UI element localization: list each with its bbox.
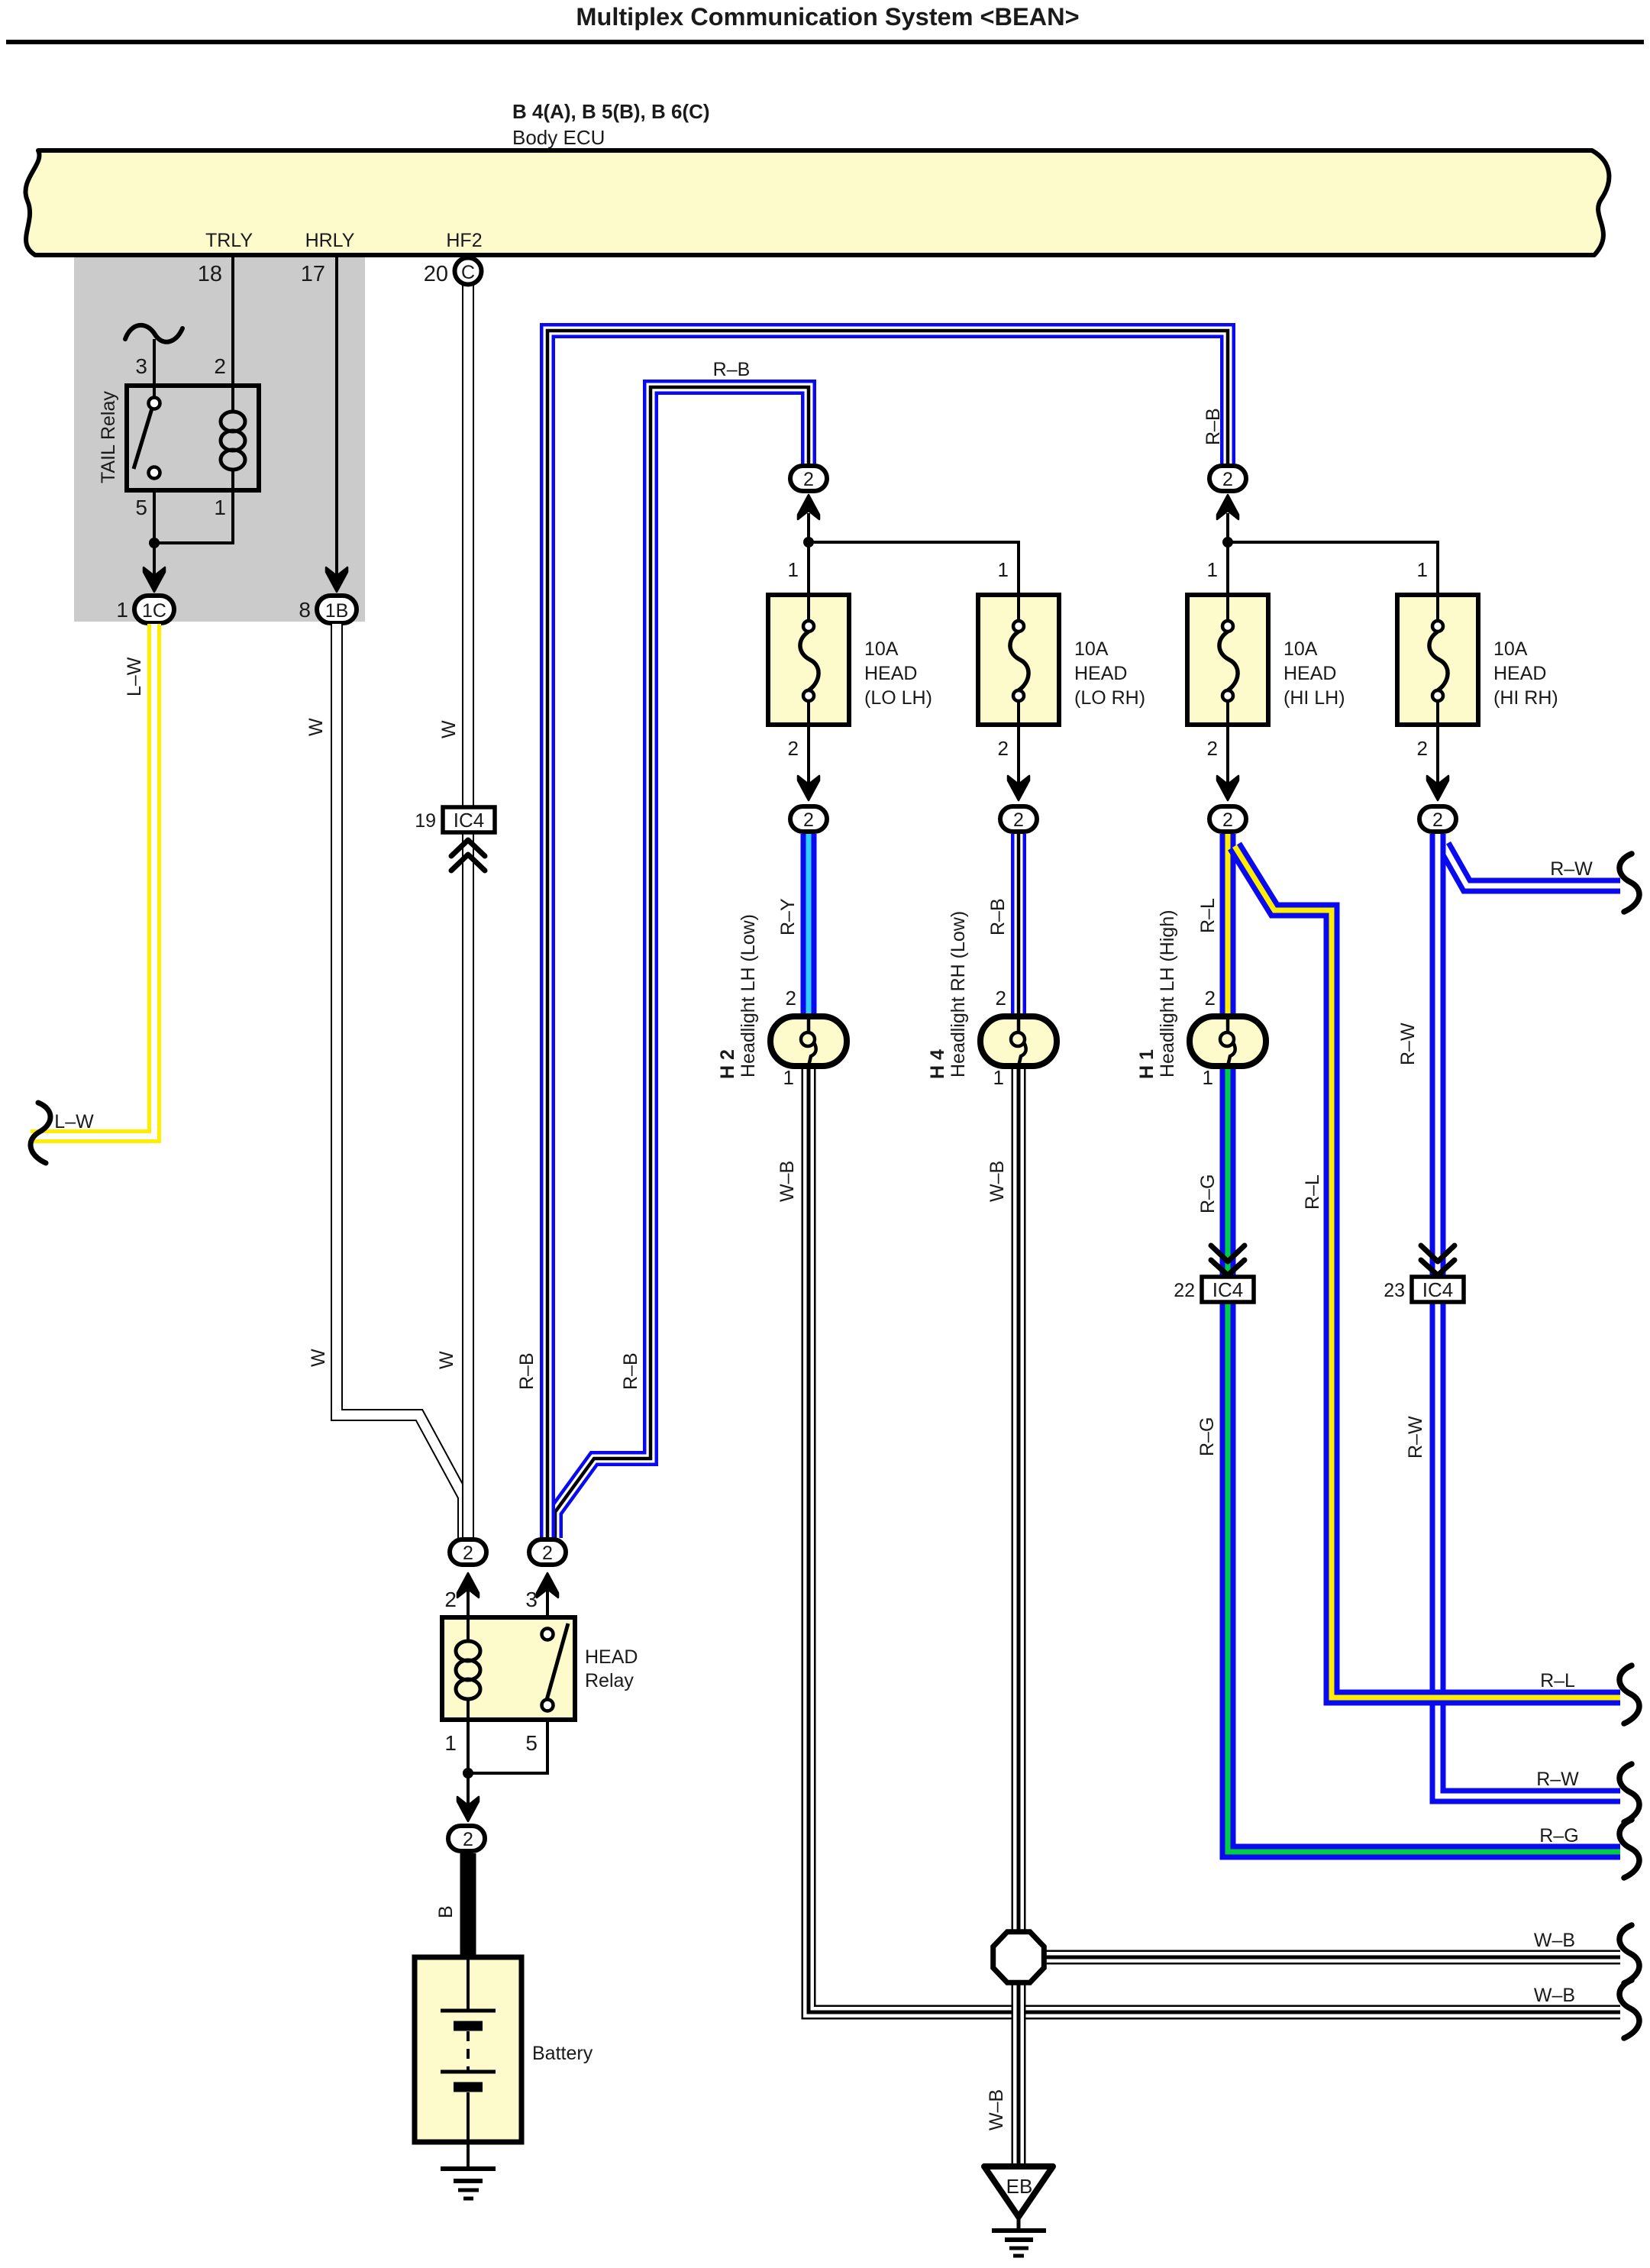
- svg-text:HEAD: HEAD: [1074, 663, 1127, 684]
- relay TAIL Relay: [98, 386, 259, 490]
- junction dot: [463, 1768, 473, 1779]
- headlight H4 (RH Low): [927, 911, 1057, 1089]
- svg-text:8: 8: [299, 598, 311, 622]
- wire HEAD relay pin5 to junction: [468, 1720, 547, 1773]
- wire W-B octagon to right: [1043, 1950, 1620, 1965]
- svg-text:3: 3: [135, 354, 147, 378]
- svg-text:HEAD: HEAD: [864, 663, 917, 684]
- svg-text:W–B: W–B: [1534, 1985, 1575, 2006]
- wire and arrow fuse LO RH pin2 to connector 2: [1000, 725, 1037, 832]
- grey harness region: [74, 257, 365, 622]
- svg-text:19: 19: [415, 810, 436, 832]
- svg-text:(HI RH): (HI RH): [1493, 687, 1558, 709]
- connector 2 under fuse HI RH: [1419, 806, 1456, 832]
- wire HRLY pin17 to connector 1B: [335, 255, 338, 577]
- wire R-Y fuse LO LH to headlight H2: [801, 834, 817, 1016]
- svg-text:HEAD: HEAD: [585, 1646, 638, 1668]
- svg-text:10A: 10A: [1284, 638, 1318, 660]
- svg-text:HEAD: HEAD: [1493, 663, 1546, 684]
- svg-text:R–G: R–G: [1197, 1174, 1219, 1213]
- wire R-B fuse LO RH to headlight H4: [1011, 834, 1026, 1016]
- svg-text:3: 3: [525, 1588, 538, 1611]
- wire TAIL relay pin1 to junction: [154, 490, 233, 543]
- fuse feed wires col3: [1226, 513, 1229, 595]
- svg-text:2: 2: [1013, 809, 1024, 831]
- Body ECU bar: [25, 150, 1609, 255]
- svg-text:20: 20: [424, 262, 448, 286]
- wire R-W branch from fuse HI RH connector to right: [1444, 845, 1620, 886]
- chevron down into IC4 23: [1421, 1245, 1455, 1262]
- svg-text:2: 2: [463, 1543, 473, 1564]
- wire W-B octagon to EB ground: [1012, 1982, 1026, 2166]
- svg-text:1: 1: [1207, 558, 1218, 581]
- connector circle C: [455, 258, 482, 285]
- svg-text:R–G: R–G: [1539, 1825, 1578, 1846]
- svg-text:1B: 1B: [325, 600, 349, 622]
- svg-text:10A: 10A: [1074, 638, 1109, 660]
- svg-text:(LO RH): (LO RH): [1074, 687, 1145, 709]
- svg-text:R–W: R–W: [1550, 858, 1593, 880]
- svg-text:2: 2: [214, 354, 226, 378]
- wire HEAD relay pin1 down: [467, 1720, 470, 1807]
- fuse 10A HEAD (LO LH): [768, 558, 932, 760]
- svg-text:Body ECU: Body ECU: [512, 126, 605, 149]
- svg-text:TAIL Relay: TAIL Relay: [98, 391, 119, 483]
- svg-text:2: 2: [1205, 987, 1216, 1010]
- svg-text:IC4: IC4: [1212, 1278, 1243, 1301]
- wire R-B main (HEAD relay to fuse HI LH): [547, 331, 1228, 1539]
- wire and arrow fuse HI RH pin2 down: [1427, 725, 1448, 800]
- svg-text:2: 2: [444, 1588, 457, 1611]
- coil: [231, 386, 234, 412]
- svg-text:2: 2: [998, 737, 1009, 760]
- wire W from connector C down to HEAD relay connector: [462, 283, 474, 1538]
- wire R-W main from fuse HI RH down: [1438, 834, 1620, 1796]
- arrow into battery connector: [457, 1797, 479, 1821]
- svg-text:C: C: [461, 262, 475, 283]
- headlight H2 (LH Low): [717, 914, 847, 1089]
- svg-text:W: W: [305, 718, 327, 736]
- fuse 10A HEAD (HI RH): [1397, 558, 1558, 760]
- svg-text:H 2: H 2: [717, 1049, 738, 1079]
- wire R-L branch from fuse HI LH connector to right: [1235, 846, 1620, 1698]
- svg-text:(LO LH): (LO LH): [864, 687, 932, 709]
- svg-text:2: 2: [1417, 737, 1428, 760]
- svg-text:W–B: W–B: [1534, 1930, 1575, 1951]
- wire W from 1B down to merge: [337, 624, 463, 1538]
- svg-text:5: 5: [135, 496, 147, 519]
- connector 2 under fuse HI LH: [1209, 806, 1246, 832]
- svg-text:EB: EB: [1006, 2175, 1033, 2198]
- connector 2 above HEAD relay switch: [529, 1539, 566, 1598]
- svg-text:H 1: H 1: [1136, 1049, 1158, 1079]
- svg-text:Headlight LH (Low): Headlight LH (Low): [738, 914, 759, 1077]
- wire and arrow fuse LO LH pin2 to connector 2: [790, 725, 827, 832]
- svg-text:2: 2: [542, 1543, 553, 1564]
- connector IC4 pin19: [443, 807, 495, 832]
- connector IC4 pin 22: [1202, 1277, 1254, 1302]
- svg-text:2: 2: [1432, 809, 1443, 831]
- svg-text:17: 17: [301, 262, 325, 286]
- svg-text:1: 1: [444, 1731, 457, 1755]
- svg-text:HF2: HF2: [446, 230, 482, 251]
- svg-text:R–W: R–W: [1405, 1416, 1426, 1459]
- svg-text:R–B: R–B: [1203, 408, 1224, 445]
- switch contacts: [149, 398, 160, 409]
- wire W-B headlight H4 to ground octagon: [1012, 1069, 1026, 1933]
- headlight H1 (LH High): [1136, 909, 1266, 1089]
- wire to HEAD relay pin 3: [546, 1588, 549, 1617]
- torn end squiggle L-W: [31, 1103, 50, 1163]
- right torn end squiggle W-B 2: [1619, 1980, 1639, 2038]
- svg-text:2: 2: [996, 987, 1006, 1010]
- svg-text:R–B: R–B: [620, 1352, 641, 1390]
- ground junction octagon: [993, 1932, 1045, 1983]
- svg-text:L–W: L–W: [124, 657, 145, 696]
- svg-text:10A: 10A: [1493, 638, 1528, 660]
- svg-text:W–B: W–B: [986, 2089, 1007, 2131]
- svg-text:22: 22: [1174, 1280, 1195, 1301]
- svg-text:R–G: R–G: [1196, 1417, 1218, 1456]
- svg-text:H 4: H 4: [927, 1049, 948, 1079]
- right torn end squiggle R-W: [1619, 1764, 1639, 1822]
- wire to HEAD relay pin 2: [467, 1588, 470, 1617]
- wire TAIL relay pin5 down: [153, 490, 156, 577]
- svg-text:2: 2: [1207, 737, 1218, 760]
- svg-text:18: 18: [198, 262, 222, 286]
- tear squiggle above TAIL relay pin 3: [125, 325, 182, 342]
- wire R-G headlight H1 to IC4 and right: [1228, 1069, 1620, 1852]
- relay HEAD Relay: [442, 1617, 638, 1720]
- svg-text:1: 1: [783, 1066, 794, 1089]
- fuse feed wires col1: [807, 513, 810, 595]
- wire L-W from 1C to left torn end: [31, 624, 154, 1136]
- right torn end squiggle R-L: [1619, 1665, 1639, 1724]
- ground EB: [984, 2166, 1053, 2256]
- svg-text:1: 1: [993, 1066, 1004, 1089]
- svg-text:Headlight RH (Low): Headlight RH (Low): [948, 911, 969, 1077]
- svg-text:(HI LH): (HI LH): [1284, 687, 1345, 709]
- arrow into 1B: [326, 567, 347, 592]
- svg-text:R–W: R–W: [1397, 1023, 1419, 1065]
- svg-text:TRLY: TRLY: [205, 230, 253, 251]
- right torn end squiggle W-B 1: [1619, 1925, 1639, 1983]
- svg-text:R–W: R–W: [1536, 1769, 1579, 1790]
- svg-text:Relay: Relay: [585, 1670, 634, 1691]
- junction dot: [149, 538, 160, 548]
- svg-text:W: W: [438, 720, 460, 738]
- svg-text:L–W: L–W: [54, 1111, 94, 1132]
- wire R-B inner branch (fuse LO LH to HEAD relay): [555, 387, 809, 1538]
- chevron down into IC4 22: [1211, 1245, 1245, 1262]
- right torn end squiggle R-G: [1619, 1820, 1639, 1878]
- svg-text:R–L: R–L: [1302, 1174, 1323, 1210]
- svg-text:W: W: [436, 1351, 457, 1369]
- svg-text:2: 2: [803, 469, 814, 490]
- wire R-L fuse HI LH to headlight H1: [1220, 834, 1236, 1016]
- svg-text:W–B: W–B: [986, 1161, 1008, 1202]
- svg-text:2: 2: [463, 1829, 473, 1850]
- battery ground: [441, 2142, 496, 2199]
- svg-text:R–L: R–L: [1197, 898, 1219, 933]
- svg-text:2: 2: [786, 987, 796, 1010]
- svg-text:Multiplex Communication System: Multiplex Communication System <BEAN>: [576, 3, 1079, 31]
- svg-text:2: 2: [788, 737, 799, 760]
- svg-text:IC4: IC4: [1422, 1278, 1453, 1301]
- svg-text:1: 1: [788, 558, 799, 581]
- svg-text:1: 1: [1203, 1066, 1213, 1089]
- svg-text:HEAD: HEAD: [1284, 663, 1336, 684]
- svg-text:1: 1: [214, 496, 226, 519]
- arrow into 1C: [144, 567, 165, 592]
- connector 2 to battery: [448, 1826, 485, 1851]
- battery: [415, 1957, 593, 2142]
- svg-text:R–L: R–L: [1540, 1670, 1575, 1691]
- svg-text:Headlight LH (High): Headlight LH (High): [1157, 909, 1178, 1077]
- svg-text:B 4(A), B 5(B), B 6(C): B 4(A), B 5(B), B 6(C): [512, 100, 710, 123]
- wire TRLY pin18 to TAIL relay coil: [231, 255, 234, 386]
- connector 1C: [134, 596, 174, 623]
- svg-text:Battery: Battery: [532, 2043, 593, 2064]
- svg-text:1: 1: [1417, 558, 1428, 581]
- svg-text:2: 2: [1222, 469, 1233, 490]
- svg-text:IC4: IC4: [454, 809, 484, 832]
- svg-text:10A: 10A: [864, 638, 899, 660]
- svg-text:R–Y: R–Y: [777, 898, 799, 935]
- svg-text:1C: 1C: [142, 600, 166, 622]
- svg-text:R–B: R–B: [516, 1352, 538, 1390]
- right torn end squiggle R-W top: [1619, 854, 1639, 912]
- svg-text:1: 1: [998, 558, 1009, 581]
- title rule: [6, 40, 1644, 44]
- svg-text:B: B: [435, 1905, 457, 1918]
- svg-text:W–B: W–B: [777, 1161, 798, 1202]
- wire W-B headlight H2 to right: [809, 1069, 1620, 2012]
- wire B battery feed: [460, 1853, 476, 1959]
- svg-text:5: 5: [525, 1731, 538, 1755]
- chevron up under IC4 19: [451, 840, 485, 856]
- connector 2 at fuse HI LH top: [1209, 466, 1246, 519]
- svg-text:HRLY: HRLY: [305, 230, 355, 251]
- fuse 10A HEAD (LO RH): [978, 558, 1145, 760]
- connector 2 at fuse LO LH top: [790, 466, 827, 519]
- wire and arrow fuse HI LH pin2 down: [1217, 725, 1238, 800]
- connector 2 above HEAD relay coil: [450, 1539, 486, 1598]
- connector IC4 pin 23: [1412, 1277, 1464, 1302]
- svg-text:2: 2: [1222, 809, 1233, 831]
- switch blade: [134, 409, 152, 469]
- svg-text:1: 1: [116, 598, 128, 622]
- svg-text:2: 2: [803, 809, 814, 831]
- wire to TAIL relay pin 3: [153, 339, 156, 398]
- svg-text:R–B: R–B: [987, 898, 1009, 935]
- svg-text:R–B: R–B: [713, 359, 751, 380]
- svg-text:W: W: [308, 1349, 329, 1367]
- connector 1B: [317, 596, 357, 623]
- svg-text:23: 23: [1384, 1280, 1405, 1301]
- fuse 10A HEAD (HI LH): [1187, 558, 1345, 760]
